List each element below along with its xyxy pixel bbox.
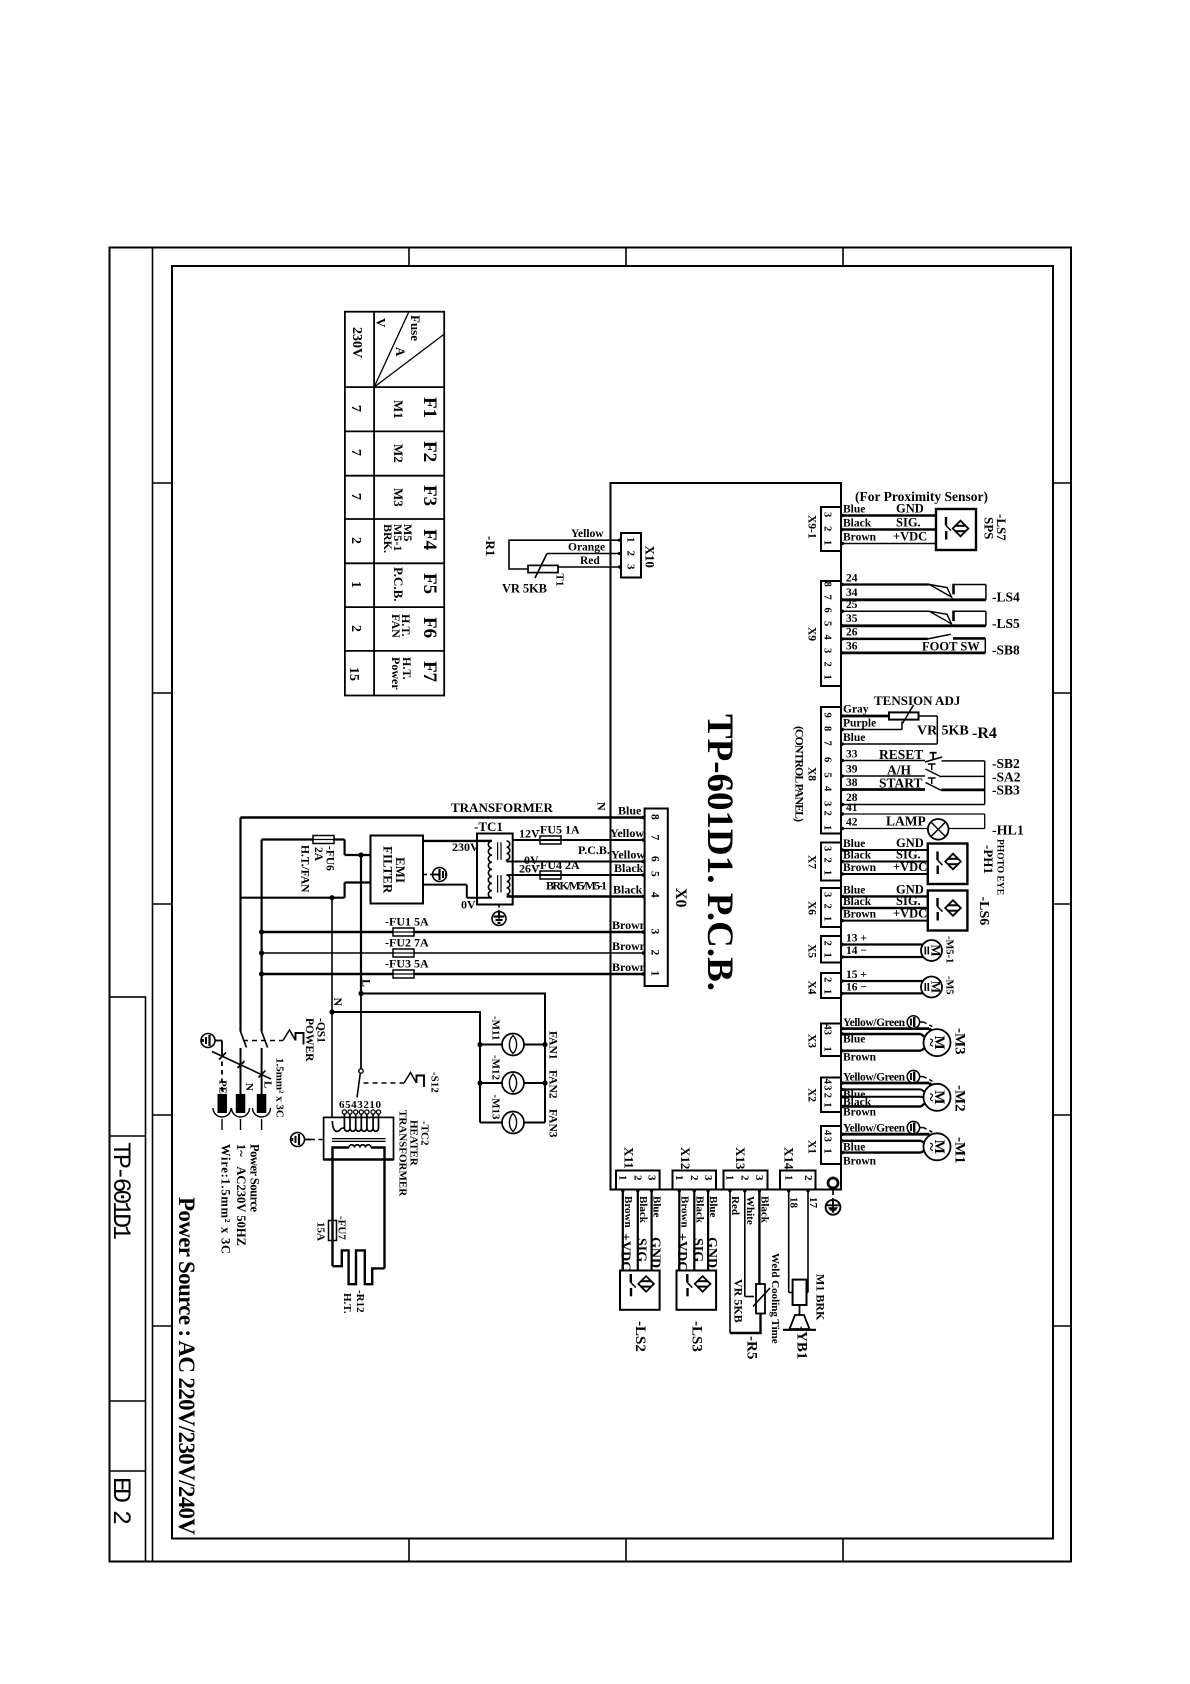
svg-text:SIG: SIG	[634, 1238, 649, 1262]
wire 42 lamp	[841, 814, 928, 829]
svg-text:-TC1: -TC1	[474, 819, 503, 834]
svg-text:N: N	[331, 998, 345, 1007]
svg-text:Fuse: Fuse	[408, 315, 423, 341]
svg-text:Weld Cooling Time: Weld Cooling Time	[769, 1253, 781, 1344]
svg-text:Red: Red	[580, 555, 600, 567]
svg-text:P.C.B.: P.C.B.	[391, 567, 406, 602]
svg-text:1: 1	[822, 540, 833, 545]
svg-text:Black: Black	[693, 1196, 705, 1224]
svg-text:F4: F4	[419, 529, 440, 551]
svg-text:(CONTROL PANEL): (CONTROL PANEL)	[793, 726, 807, 822]
svg-text:8: 8	[649, 814, 661, 820]
svg-text:15 +: 15 +	[846, 969, 867, 981]
svg-text:-FU2 7A: -FU2 7A	[385, 936, 429, 950]
svg-text:PHOTO EYE: PHOTO EYE	[995, 839, 1005, 895]
svg-text:7: 7	[348, 405, 363, 412]
ground below TC1	[492, 905, 506, 926]
svg-text:-FU1 5A: -FU1 5A	[385, 915, 429, 929]
svg-text:-M1: -M1	[952, 1137, 968, 1164]
svg-text:SIG: SIG	[690, 1238, 705, 1262]
svg-text:VR: VR	[917, 724, 938, 739]
svg-text:F7: F7	[419, 661, 440, 683]
fan motor M11 FAN1	[480, 1016, 559, 1060]
svg-text:Black: Black	[614, 861, 644, 875]
svg-text:M2: M2	[391, 444, 406, 463]
wire 26	[841, 627, 928, 639]
svg-text:F1: F1	[419, 397, 440, 418]
svg-text:+VDC: +VDC	[893, 860, 927, 874]
svg-text:F5: F5	[419, 573, 440, 594]
node N junction fans	[329, 1009, 334, 1014]
svg-text:2: 2	[822, 858, 833, 863]
svg-text:M3: M3	[391, 488, 406, 507]
connector X1	[806, 1126, 842, 1164]
svg-text:TRANSFORMER: TRANSFORMER	[451, 800, 553, 815]
svg-text:18: 18	[788, 1197, 800, 1209]
switch QS1 pole L	[262, 1032, 268, 1096]
svg-text:-HL1: -HL1	[992, 824, 1024, 839]
wire 34	[841, 587, 986, 600]
svg-text:P.C.B.: P.C.B.	[578, 843, 610, 857]
svg-text:Brown: Brown	[843, 532, 877, 544]
brake solenoid YB1 M1 BRK	[783, 1274, 828, 1359]
resistor R5 weld cooling time	[730, 1253, 781, 1359]
pin junction dots	[618, 514, 844, 1193]
power source note text	[219, 1144, 262, 1254]
connector X3	[806, 1024, 842, 1057]
svg-text:SIG.: SIG.	[896, 516, 921, 530]
photo eye PH1	[928, 839, 1005, 895]
node L junction	[358, 991, 363, 996]
svg-text:-R1: -R1	[483, 536, 498, 556]
svg-text:4: 4	[822, 1079, 833, 1085]
svg-text:Red: Red	[729, 1196, 741, 1215]
svg-text:SPS: SPS	[982, 517, 997, 539]
svg-text:X2: X2	[806, 1088, 818, 1102]
svg-text:5: 5	[649, 871, 661, 877]
svg-text:M1 BRK: M1 BRK	[814, 1274, 828, 1321]
svg-text:Black: Black	[843, 850, 872, 862]
pushbutton SB2 RESET	[841, 747, 1020, 771]
connector X9-1	[806, 507, 842, 551]
svg-text:7: 7	[649, 835, 661, 841]
wire X12-1 Brown	[674, 1190, 690, 1272]
wire X9-1 Black SIG	[841, 516, 936, 530]
svg-text:3: 3	[753, 1175, 765, 1181]
svg-text:Brown: Brown	[612, 939, 647, 953]
svg-text:+VDC: +VDC	[893, 530, 927, 544]
junction N to fans	[329, 895, 334, 900]
junction fan rails	[477, 1042, 547, 1086]
connector X6	[806, 888, 842, 927]
svg-text:1~ AC230V 50HZ: 1~ AC230V 50HZ	[234, 1144, 248, 1246]
svg-text:15A: 15A	[315, 1222, 327, 1241]
svg-text:FILTER: FILTER	[381, 846, 396, 894]
tension adj label	[874, 693, 961, 708]
svg-text:F3: F3	[419, 485, 440, 506]
svg-text:PE: PE	[217, 1080, 229, 1094]
edition text ED 2	[106, 1477, 135, 1525]
title text TP-601D1	[106, 1142, 135, 1240]
svg-text:Brown: Brown	[612, 960, 647, 974]
svg-text:1: 1	[625, 537, 637, 543]
svg-text:36: 36	[846, 641, 858, 653]
svg-text:3: 3	[625, 564, 637, 570]
svg-text:1: 1	[348, 581, 363, 588]
heater element R12 H.T.	[333, 1250, 385, 1313]
svg-text:2: 2	[348, 625, 363, 632]
svg-text:41: 41	[846, 802, 858, 814]
svg-text:1: 1	[822, 1148, 833, 1153]
svg-text:-SB8: -SB8	[992, 643, 1020, 658]
svg-text:Blue: Blue	[707, 1196, 719, 1218]
label P.C.B.	[578, 843, 610, 857]
fuse FU6	[262, 836, 371, 894]
svg-text:Black: Black	[843, 518, 872, 530]
svg-text:Power Source : AC 220V/230V/24: Power Source : AC 220V/230V/240V	[174, 1197, 199, 1535]
svg-text:Yellow: Yellow	[571, 528, 604, 540]
svg-text:-LS3: -LS3	[689, 1321, 705, 1352]
wire L rail	[261, 840, 263, 1032]
ground PCB corner	[826, 1188, 841, 1215]
svg-text:6: 6	[822, 757, 833, 762]
svg-text:L: L	[262, 1081, 274, 1088]
fuse F7 row labels	[346, 657, 440, 690]
svg-text:Black: Black	[613, 883, 643, 897]
svg-text:Black: Black	[637, 1196, 649, 1224]
svg-text:Yellow: Yellow	[611, 848, 645, 862]
svg-text:3: 3	[822, 846, 833, 851]
fuse table header labels	[349, 315, 423, 358]
svg-text:-S12: -S12	[429, 1072, 441, 1093]
wire X13-2 White	[744, 1190, 756, 1297]
svg-text:2: 2	[739, 1175, 751, 1181]
terminal PE	[213, 1080, 231, 1130]
svg-text:Brown: Brown	[622, 1196, 634, 1228]
fuse table	[345, 312, 444, 696]
svg-text:X14: X14	[782, 1147, 797, 1170]
svg-text:-M5-1: -M5-1	[944, 936, 955, 963]
svg-text:1: 1	[822, 1102, 833, 1107]
svg-text:1: 1	[822, 953, 833, 958]
svg-text:BRK/M5/M5-1: BRK/M5/M5-1	[546, 879, 607, 893]
fuse FU4	[536, 858, 580, 879]
svg-text:X9: X9	[806, 627, 818, 641]
svg-text:3: 3	[645, 1175, 657, 1181]
svg-text:Blue: Blue	[843, 1034, 865, 1046]
fan motor M13 FAN3	[480, 1095, 559, 1138]
switch QS1 pole N	[241, 1032, 247, 1096]
svg-text:X13: X13	[733, 1147, 748, 1170]
svg-text:Brown: Brown	[678, 1196, 690, 1228]
svg-text:3: 3	[822, 1085, 833, 1090]
svg-text:-M2: -M2	[952, 1085, 968, 1112]
fuse FU7 15A	[315, 1216, 348, 1266]
connector X7	[806, 843, 842, 881]
svg-text:ED 2: ED 2	[106, 1477, 135, 1525]
wires X6	[841, 882, 928, 920]
svg-text:Brown: Brown	[843, 1107, 877, 1119]
svg-text:1: 1	[649, 971, 661, 977]
svg-text:Brown: Brown	[843, 909, 877, 921]
P.C.B. title text	[699, 714, 740, 991]
svg-text:~: ~	[923, 1093, 940, 1102]
svg-text:4: 4	[822, 635, 833, 641]
svg-text:4: 4	[822, 786, 833, 792]
svg-text:POWER: POWER	[303, 1018, 315, 1062]
node N label	[595, 802, 643, 818]
svg-text:V: V	[374, 318, 389, 328]
fuse FU3 5A	[262, 957, 647, 979]
svg-text:-PH1: -PH1	[981, 845, 996, 874]
svg-text:4: 4	[649, 892, 661, 898]
svg-text:L: L	[360, 979, 374, 987]
ground PE symbol	[201, 1034, 222, 1096]
svg-text:5: 5	[822, 621, 833, 626]
svg-text:2: 2	[649, 950, 661, 956]
svg-text:Yellow/Green: Yellow/Green	[843, 1071, 906, 1083]
svg-text:X12: X12	[678, 1147, 693, 1169]
switch SA2 A/H	[841, 763, 1021, 785]
svg-text:230V: 230V	[349, 327, 364, 358]
svg-text:35: 35	[846, 613, 858, 625]
terminal L	[253, 1081, 274, 1130]
svg-text:X11: X11	[622, 1147, 637, 1169]
svg-text:GND: GND	[647, 1237, 662, 1268]
junction FU6 output	[358, 852, 363, 857]
svg-text:H.T./FAN: H.T./FAN	[299, 845, 311, 893]
note For Proximity Sensor	[855, 489, 988, 504]
connector X13	[724, 1147, 768, 1190]
svg-text:RESET: RESET	[879, 747, 923, 762]
svg-text:Gray: Gray	[843, 704, 869, 716]
wire L feed from FU6 down	[360, 855, 362, 994]
svg-text:2: 2	[802, 1175, 814, 1181]
label BRK/M5/M5-1	[546, 879, 607, 893]
svg-text:2: 2	[822, 977, 833, 982]
svg-text:Black: Black	[758, 1196, 770, 1224]
svg-text:3: 3	[822, 1137, 833, 1142]
svg-text:A: A	[393, 347, 408, 357]
svg-text:FAN: FAN	[389, 614, 403, 638]
ground at EMI filter	[424, 868, 447, 882]
title block column	[110, 997, 146, 1562]
wire X11-3 Blue	[647, 1190, 662, 1271]
wire L to fan rail	[361, 994, 545, 1123]
svg-text:1: 1	[822, 825, 833, 830]
wire X13-1 Red	[729, 1190, 741, 1334]
svg-text:6: 6	[822, 608, 833, 613]
svg-text:6: 6	[649, 856, 661, 862]
connector X4	[806, 973, 842, 998]
svg-text:-FU7: -FU7	[336, 1216, 348, 1240]
svg-text:-R4: -R4	[972, 725, 997, 742]
svg-text:7: 7	[822, 741, 833, 746]
svg-text:+VDC: +VDC	[674, 1233, 689, 1271]
switch QS1 linkage	[243, 1018, 327, 1062]
wire X11-2 Black	[634, 1190, 649, 1271]
svg-text:1: 1	[822, 870, 833, 875]
svg-text:TP-601D1. P.C.B.: TP-601D1. P.C.B.	[699, 714, 740, 991]
svg-text:42: 42	[846, 817, 858, 829]
svg-text:-QS1: -QS1	[315, 1018, 327, 1043]
svg-text:2A: 2A	[312, 847, 324, 862]
svg-text:13 +: 13 +	[846, 933, 867, 945]
svg-text:X4: X4	[806, 981, 818, 995]
resistor R4 tension VR 5KB	[841, 704, 997, 745]
svg-text:1: 1	[724, 1175, 736, 1181]
svg-text:N: N	[595, 802, 609, 811]
svg-text:~: ~	[923, 1038, 940, 1047]
wire X9-1 Brown VDC	[841, 530, 936, 544]
svg-text:-FU5 1A: -FU5 1A	[536, 823, 580, 837]
svg-text:F6: F6	[419, 617, 440, 638]
svg-text:38: 38	[846, 777, 858, 789]
svg-text:3: 3	[649, 929, 661, 935]
svg-text:2: 2	[688, 1175, 700, 1181]
wire 12V to X0 pin 7	[513, 839, 645, 841]
svg-text:2: 2	[632, 1175, 644, 1181]
label 12V	[519, 827, 540, 841]
svg-text:3: 3	[822, 1030, 833, 1035]
svg-text:1: 1	[822, 1047, 833, 1052]
svg-text:Blue: Blue	[843, 504, 865, 516]
svg-text:3: 3	[822, 648, 833, 653]
svg-text:-M12: -M12	[490, 1055, 502, 1081]
junction FU2 rail	[259, 950, 264, 955]
svg-text:-R5: -R5	[744, 1336, 760, 1359]
connector X14	[780, 1147, 816, 1190]
fuse F3 row labels	[348, 485, 440, 507]
svg-text:TP-601D1: TP-601D1	[106, 1142, 135, 1240]
svg-text:8: 8	[822, 726, 833, 731]
wire 41	[841, 802, 985, 814]
svg-text:X0: X0	[672, 888, 689, 908]
svg-text:T1: T1	[554, 574, 566, 587]
connector X12	[673, 1147, 717, 1190]
connector X5	[806, 936, 842, 963]
proximity sensor LS6	[928, 891, 991, 931]
svg-text:Blue: Blue	[843, 884, 865, 896]
svg-text:25: 25	[846, 599, 858, 611]
svg-text:N: N	[243, 1083, 255, 1091]
svg-text:-M11: -M11	[490, 1016, 502, 1040]
EMI filter	[371, 836, 424, 904]
svg-text:-FU3 5A: -FU3 5A	[385, 957, 429, 971]
wire 18	[788, 1190, 800, 1293]
svg-text:1: 1	[822, 989, 833, 994]
svg-text:FAN3: FAN3	[547, 1109, 559, 1138]
connector X2	[806, 1078, 842, 1113]
svg-text:14 −: 14 −	[846, 945, 867, 957]
wire X13-3 Black	[758, 1190, 770, 1285]
svg-text:Blue: Blue	[618, 804, 642, 818]
svg-text:-LS5: -LS5	[992, 616, 1020, 631]
svg-text:X9-1: X9-1	[806, 515, 818, 539]
wires X7 photo eye	[841, 836, 928, 874]
svg-text:-M13: -M13	[490, 1095, 502, 1121]
lamp HL1	[928, 814, 1024, 840]
svg-text:-LS4: -LS4	[992, 590, 1020, 605]
svg-text:Wire:1.5mm² x 3C: Wire:1.5mm² x 3C	[219, 1144, 233, 1254]
limit switch LS4	[929, 584, 1020, 605]
border outer frame	[110, 248, 1072, 1562]
node N label	[331, 998, 345, 1007]
svg-text:X7: X7	[806, 855, 818, 869]
svg-text:5: 5	[822, 773, 833, 778]
svg-text:Blue: Blue	[651, 1196, 663, 1218]
svg-text:39: 39	[846, 764, 858, 776]
connector X8	[793, 707, 842, 834]
svg-text:1: 1	[783, 1175, 795, 1181]
junction FU3 rail	[259, 971, 264, 976]
proximity sensor LS3	[677, 1271, 717, 1352]
motor M5-1	[841, 933, 955, 964]
svg-text:GND: GND	[704, 1237, 719, 1268]
connector X10	[621, 533, 658, 578]
svg-text:Orange: Orange	[568, 542, 605, 554]
limit switch LS5	[929, 611, 1020, 631]
wire 0V upper to X0 pin 6	[507, 826, 646, 867]
wire 24	[841, 573, 929, 585]
svg-text:Brown: Brown	[843, 1052, 877, 1064]
svg-text:16 −: 16 −	[846, 981, 867, 993]
svg-text:0V: 0V	[461, 898, 476, 912]
transformer TC1	[423, 800, 553, 912]
svg-text:M: M	[929, 944, 944, 956]
svg-text:17: 17	[807, 1197, 819, 1209]
svg-text:TENSION ADJ: TENSION ADJ	[874, 693, 961, 708]
power source big label	[174, 1197, 199, 1535]
svg-text:Purple: Purple	[843, 718, 876, 730]
wire 35	[841, 613, 986, 626]
wire 0V lower to X0 pin 4	[507, 883, 645, 897]
svg-text:1: 1	[673, 1175, 685, 1181]
svg-text:H.T.: H.T.	[341, 1293, 353, 1314]
motor M3	[841, 1016, 968, 1064]
svg-text:X6: X6	[806, 901, 818, 915]
svg-text:5KB: 5KB	[942, 724, 969, 739]
wire N to fan rail	[332, 898, 480, 1123]
fan motor M12 FAN2	[480, 1055, 559, 1099]
wire 28 common	[841, 761, 985, 805]
wire X9-1 Blue GND	[841, 502, 936, 516]
svg-text:8: 8	[822, 582, 833, 587]
wire 17	[807, 1190, 819, 1293]
wire N branch to EMI	[241, 818, 371, 1032]
svg-text:1: 1	[822, 916, 833, 921]
svg-text:2: 2	[822, 1093, 833, 1098]
wire N bus to X0 pin 8	[241, 816, 645, 818]
svg-text:-YB1: -YB1	[794, 1326, 810, 1359]
svg-text:2: 2	[822, 941, 833, 946]
switch S12	[357, 994, 441, 1098]
chassis terminal circle	[828, 1178, 838, 1188]
fuse FU2 7A	[262, 936, 647, 958]
resistor R1 trimmer	[483, 528, 621, 596]
svg-text:3: 3	[702, 1175, 714, 1181]
svg-text:6543210: 6543210	[339, 1099, 382, 1111]
svg-text:7: 7	[348, 449, 363, 456]
svg-text:3: 3	[822, 892, 833, 897]
svg-text:-M5: -M5	[944, 976, 955, 995]
node L label	[360, 979, 374, 987]
svg-text:15: 15	[346, 667, 361, 681]
svg-text:Yellow/Green: Yellow/Green	[843, 1017, 906, 1029]
svg-text:GND: GND	[896, 502, 924, 516]
svg-text:2: 2	[625, 551, 637, 557]
connector X11	[616, 1147, 660, 1190]
